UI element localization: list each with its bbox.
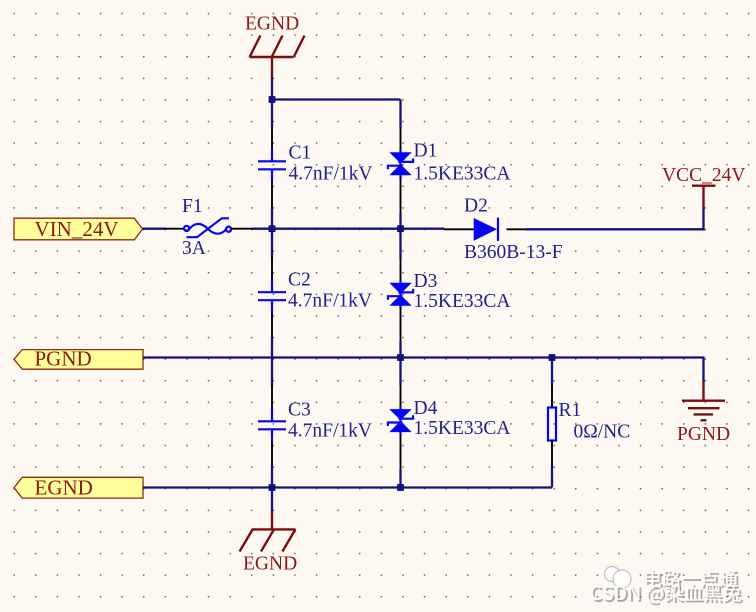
watermark text line2	[591, 584, 743, 606]
capacitor C3	[258, 409, 286, 442]
svg-text:D1: D1	[414, 141, 438, 162]
wire D3 column upper	[399, 229, 401, 259]
wire R1 column upper	[551, 358, 553, 386]
wire D3 to PGND row	[399, 342, 401, 358]
label F1 designator	[182, 196, 203, 217]
svg-text:B360B-13-F: B360B-13-F	[464, 242, 563, 263]
wire C2 to PGND row	[271, 337, 273, 358]
capacitor C2	[258, 280, 286, 313]
svg-text:D4: D4	[414, 398, 438, 419]
net label PGND	[14, 347, 143, 371]
pin C1 pin1	[271, 128, 273, 151]
diode D2	[474, 218, 498, 241]
svg-text:3A: 3A	[182, 238, 206, 259]
label C3 value	[288, 421, 372, 442]
label F1 value	[182, 238, 206, 259]
wire EGND stub down	[271, 488, 273, 511]
wire top horizontal	[272, 98, 401, 100]
label D2 value	[464, 242, 563, 263]
pin C1 pin2	[271, 181, 273, 207]
wire EGND-top stem	[271, 77, 273, 100]
wire C1 column upper	[271, 100, 273, 128]
label D2 designator	[464, 196, 488, 217]
wire VIN row middle	[272, 228, 401, 230]
node junction EGND-D4	[397, 484, 404, 491]
svg-text:PGND: PGND	[35, 347, 92, 371]
pin F1 pin1	[165, 228, 184, 230]
node junction PGND-D3	[397, 354, 404, 361]
pin D2 pin2	[507, 228, 528, 230]
wire C3 to EGND row	[271, 466, 273, 488]
svg-text:4.7nF/1kV: 4.7nF/1kV	[288, 291, 372, 312]
label C3 designator	[288, 400, 311, 421]
svg-text:F1: F1	[182, 196, 203, 217]
node junction VIN-D1	[397, 225, 404, 232]
wire fuse to C1 node	[253, 228, 273, 230]
svg-text:PGND: PGND	[677, 424, 730, 445]
wire R1 to EGND row	[551, 466, 553, 488]
node junction VIN-C1	[269, 225, 276, 232]
wire VIN row to D2	[401, 228, 445, 230]
svg-text:1.5KE33CA: 1.5KE33CA	[414, 291, 511, 312]
svg-text:D3: D3	[414, 271, 438, 292]
pin D4 pin1	[400, 385, 402, 408]
node junction EGND-C3	[269, 484, 276, 491]
watermark icon	[605, 567, 632, 589]
wire D2 to VCC	[526, 206, 704, 229]
label R1 designator	[559, 400, 582, 421]
svg-text:1.5KE33CA: 1.5KE33CA	[414, 418, 511, 439]
pin D1 pin2	[400, 178, 402, 215]
wire PGND row	[143, 358, 704, 382]
label D1 value	[414, 164, 511, 185]
label D4 value	[414, 418, 511, 439]
net label EGND	[14, 476, 143, 500]
svg-text:C2: C2	[288, 270, 311, 291]
svg-text:EGND: EGND	[245, 14, 299, 35]
node junction PGND-R1	[549, 354, 556, 361]
power port VCC_24V	[662, 165, 745, 207]
svg-text:R1: R1	[559, 400, 582, 421]
label C2 designator	[288, 270, 311, 291]
ground PGND earth	[677, 381, 730, 446]
wire D1 column upper	[399, 100, 401, 129]
label D3 value	[414, 291, 511, 312]
svg-text:VCC_24V: VCC_24V	[662, 165, 745, 186]
diode D1 TVS	[388, 149, 413, 178]
label C2 value	[288, 291, 372, 312]
label C1 value	[289, 164, 373, 185]
label D1 designator	[414, 141, 438, 162]
svg-text:0Ω/NC: 0Ω/NC	[574, 422, 631, 443]
wire EGND row	[143, 486, 552, 488]
diode D3 TVS	[388, 280, 413, 309]
wire D4 to EGND row	[399, 470, 401, 488]
svg-text:EGND: EGND	[35, 476, 93, 500]
wire C1 to VIN row	[271, 207, 273, 229]
svg-text:D2: D2	[464, 196, 488, 217]
svg-text:C3: C3	[288, 400, 311, 421]
pin D4 pin2	[400, 435, 402, 471]
pin C3 pin1	[271, 387, 273, 411]
pin R1 pin2	[551, 441, 553, 467]
pin D1 pin1	[400, 128, 402, 151]
watermark text line1	[645, 569, 739, 589]
svg-text:C1: C1	[289, 143, 312, 164]
pin D3 pin2	[400, 308, 402, 342]
capacitor C1	[258, 149, 286, 182]
label D3 designator	[414, 271, 438, 292]
resistor R1	[548, 408, 556, 441]
fuse F1	[184, 218, 231, 237]
pin D2 pin1	[444, 228, 474, 230]
wire VIN to fuse	[143, 228, 167, 230]
label D4 designator	[414, 398, 438, 419]
pin D3 pin1	[400, 258, 402, 281]
svg-text:4.7nF/1kV: 4.7nF/1kV	[288, 421, 372, 442]
wire C2 column upper	[271, 229, 273, 258]
label R1 value	[574, 422, 631, 443]
pin F1 pin2	[232, 228, 254, 230]
svg-text:VIN_24V: VIN_24V	[35, 217, 119, 241]
pin C2 pin2	[271, 312, 273, 337]
svg-text:1.5KE33CA: 1.5KE33CA	[414, 164, 511, 185]
pin C3 pin2	[271, 441, 273, 466]
label C1 designator	[289, 143, 312, 164]
diode D4 TVS	[388, 406, 413, 435]
power port EGND bottom	[240, 510, 298, 575]
pin C2 pin1	[271, 258, 273, 282]
svg-text:EGND: EGND	[243, 554, 297, 575]
wire D1 to VIN row	[399, 214, 401, 229]
net label VIN_24V	[14, 217, 143, 241]
wire D4 column upper	[399, 358, 401, 386]
pin R1 pin1	[551, 385, 553, 408]
power port EGND top	[245, 14, 305, 78]
node junction top-left	[269, 96, 276, 103]
wire C3 column upper	[271, 358, 273, 388]
svg-text:4.7nF/1kV: 4.7nF/1kV	[289, 164, 373, 185]
